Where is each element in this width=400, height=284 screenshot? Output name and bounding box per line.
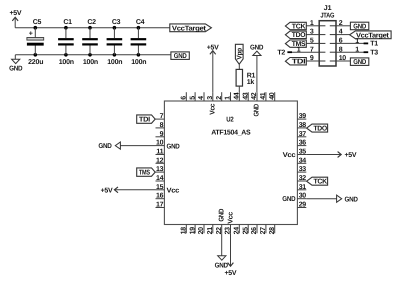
svg-text:32: 32 bbox=[299, 175, 307, 182]
wire J1 pin1 bbox=[306, 25, 319, 27]
svg-text:42: 42 bbox=[251, 92, 258, 100]
svg-text:1: 1 bbox=[355, 47, 359, 54]
capacitor C4 bbox=[131, 19, 147, 66]
capacitor C2 bbox=[82, 19, 98, 66]
power +5V (U2 pin35) bbox=[338, 152, 357, 160]
svg-text:VccTarget: VccTarget bbox=[172, 25, 207, 32]
IC U2 pin35 name Vcc bbox=[283, 152, 296, 159]
IC U2 pin23 name Vcc bbox=[227, 212, 234, 224]
wire J1 pin9 bbox=[306, 60, 319, 62]
wire Vcc top rail bbox=[15, 27, 170, 29]
wire J1 pin2 bbox=[336, 25, 350, 27]
capacitor C1 bbox=[58, 19, 74, 66]
svg-text:GND: GND bbox=[215, 262, 228, 269]
svg-text:17: 17 bbox=[156, 202, 164, 209]
global label TDO (U2 pin38) bbox=[307, 124, 328, 132]
IC U2 right pins 39-29 bbox=[297, 113, 306, 208]
resistor R1 bbox=[236, 69, 255, 86]
svg-text:22: 22 bbox=[216, 227, 223, 235]
svg-text:33: 33 bbox=[299, 166, 307, 173]
svg-text:ATF1504_AS: ATF1504_AS bbox=[211, 130, 251, 137]
svg-text:29: 29 bbox=[299, 202, 307, 209]
svg-text:T2: T2 bbox=[277, 49, 285, 56]
wire J1 pin5 bbox=[306, 42, 319, 44]
connector J1 label bbox=[324, 5, 332, 12]
svg-text:+5V: +5V bbox=[101, 187, 113, 194]
svg-text:GND: GND bbox=[167, 144, 180, 151]
svg-text:15: 15 bbox=[156, 184, 164, 191]
svg-text:100n: 100n bbox=[131, 59, 146, 66]
wire J1 pin4 bbox=[336, 34, 350, 36]
svg-text:38: 38 bbox=[299, 122, 307, 129]
wire J1 pin6 bbox=[336, 42, 368, 44]
svg-text:8: 8 bbox=[160, 122, 164, 129]
svg-text:C2: C2 bbox=[87, 19, 96, 26]
power +5V (U2 pin23) bbox=[225, 263, 237, 277]
svg-text:TDO: TDO bbox=[292, 32, 306, 39]
svg-text:11: 11 bbox=[156, 149, 163, 156]
svg-text:7: 7 bbox=[160, 113, 164, 120]
IC U2 left pins 7-17 bbox=[156, 113, 165, 208]
ground GND (bottom left) bbox=[9, 55, 22, 73]
testpoint T1 bbox=[355, 38, 378, 48]
svg-text:28: 28 bbox=[269, 227, 276, 235]
wire J1 pin7 bbox=[292, 51, 319, 53]
global label GND (bottom rail) bbox=[171, 52, 189, 60]
svg-text:C4: C4 bbox=[136, 19, 145, 26]
svg-text:40: 40 bbox=[269, 92, 276, 100]
svg-text:24: 24 bbox=[234, 227, 241, 235]
svg-text:C3: C3 bbox=[112, 19, 121, 26]
svg-text:5: 5 bbox=[189, 96, 196, 100]
IC U2 pin15 name Vcc bbox=[167, 187, 180, 194]
wire R1 to U2 pin44 bbox=[238, 86, 240, 92]
svg-text:100n: 100n bbox=[107, 59, 122, 66]
svg-text:TDI: TDI bbox=[139, 116, 150, 123]
svg-text:T3: T3 bbox=[370, 49, 378, 56]
svg-text:C1: C1 bbox=[63, 19, 72, 26]
svg-text:16: 16 bbox=[156, 193, 164, 200]
svg-text:GND: GND bbox=[345, 196, 358, 203]
svg-text:JTAG: JTAG bbox=[320, 13, 335, 20]
svg-text:J1: J1 bbox=[324, 5, 332, 12]
IC U2 bottom pins 18-28 bbox=[181, 225, 276, 235]
svg-text:+5V: +5V bbox=[345, 152, 357, 159]
svg-text:GND: GND bbox=[353, 23, 366, 30]
testpoint T2 bbox=[277, 47, 300, 57]
svg-text:U2: U2 bbox=[226, 117, 234, 124]
svg-text:Vcc: Vcc bbox=[167, 187, 180, 194]
svg-text:GND: GND bbox=[174, 53, 187, 60]
svg-text:12: 12 bbox=[156, 157, 164, 164]
testpoint T3 bbox=[355, 47, 378, 57]
svg-text:9: 9 bbox=[160, 131, 164, 138]
global label TDI (U2 pin7) bbox=[137, 115, 156, 124]
global label Vpp bbox=[235, 44, 243, 64]
svg-text:TDO: TDO bbox=[313, 125, 327, 132]
connector J1 pin numbers bbox=[310, 20, 346, 62]
svg-text:43: 43 bbox=[242, 92, 249, 100]
wire Vpp to R1 bbox=[238, 64, 240, 69]
IC U2 pin42 name GND bbox=[254, 104, 261, 117]
global label TMS (J1) bbox=[285, 40, 306, 48]
global label TCK (U2 pin32) bbox=[307, 177, 328, 185]
svg-text:1: 1 bbox=[297, 47, 301, 54]
global label TDO (J1) bbox=[285, 31, 306, 39]
wire U2 pin35 +5V bbox=[306, 154, 341, 156]
svg-text:34: 34 bbox=[299, 157, 307, 164]
wire J1 pin3 bbox=[306, 34, 319, 36]
global label VccTarget (top rail) bbox=[170, 24, 212, 33]
svg-text:20: 20 bbox=[198, 227, 205, 235]
global label VccTarget (J1 pin4) bbox=[350, 31, 392, 40]
global label TDI (J1) bbox=[285, 58, 306, 66]
svg-text:35: 35 bbox=[299, 149, 307, 156]
svg-text:TCK: TCK bbox=[313, 179, 327, 186]
svg-text:36: 36 bbox=[299, 140, 307, 147]
svg-text:VccTarget: VccTarget bbox=[356, 33, 390, 40]
svg-text:TMS: TMS bbox=[139, 169, 150, 176]
svg-text:100n: 100n bbox=[83, 59, 98, 66]
IC U2 value ATF1504_AS bbox=[211, 130, 251, 137]
svg-text:1: 1 bbox=[355, 38, 359, 45]
IC U2 body bbox=[164, 101, 297, 225]
svg-text:18: 18 bbox=[181, 227, 188, 235]
svg-text:GND: GND bbox=[254, 104, 261, 117]
capacitor C3 bbox=[107, 19, 123, 66]
svg-text:21: 21 bbox=[207, 227, 214, 235]
wire U2 pin22 GND bbox=[221, 233, 223, 256]
svg-text:Vpp: Vpp bbox=[236, 48, 243, 60]
svg-text:27: 27 bbox=[260, 227, 267, 235]
svg-text:GND: GND bbox=[98, 143, 111, 150]
connector J1 body bbox=[319, 21, 336, 66]
power +5V (top left) bbox=[10, 10, 22, 28]
svg-text:Vcc: Vcc bbox=[209, 103, 216, 114]
svg-text:37: 37 bbox=[299, 131, 307, 138]
svg-text:220u: 220u bbox=[28, 59, 43, 66]
svg-text:C5: C5 bbox=[33, 19, 42, 26]
wire GND bottom rail bbox=[15, 54, 171, 56]
svg-text:100n: 100n bbox=[59, 59, 74, 66]
svg-text:14: 14 bbox=[156, 175, 164, 182]
svg-text:1k: 1k bbox=[247, 78, 255, 86]
power label GND (J1 pin10) bbox=[350, 58, 368, 66]
svg-text:25: 25 bbox=[242, 227, 249, 235]
svg-text:31: 31 bbox=[299, 184, 307, 191]
svg-text:41: 41 bbox=[260, 92, 267, 100]
power GND (U2 pin22) bbox=[215, 256, 228, 270]
svg-text:44: 44 bbox=[234, 92, 241, 100]
global label TCK (J1) bbox=[285, 22, 306, 30]
svg-text:+5V: +5V bbox=[225, 270, 237, 277]
IC U2 top pins 6-40 bbox=[181, 92, 276, 101]
IC U2 pin3 name Vcc bbox=[209, 103, 216, 114]
svg-text:GND: GND bbox=[219, 209, 226, 222]
svg-text:+5V: +5V bbox=[10, 10, 22, 17]
svg-text:6: 6 bbox=[181, 96, 188, 100]
IC U2 refdes bbox=[226, 117, 234, 124]
svg-text:GND: GND bbox=[9, 65, 22, 72]
svg-text:Vcc: Vcc bbox=[283, 152, 296, 159]
svg-text:T1: T1 bbox=[370, 41, 378, 48]
IC U2 pin30 name GND bbox=[282, 196, 295, 203]
svg-text:39: 39 bbox=[299, 113, 307, 120]
wire U2 pin23 +5V bbox=[230, 233, 232, 266]
svg-text:GND: GND bbox=[250, 45, 263, 52]
svg-text:26: 26 bbox=[251, 227, 258, 235]
svg-text:1: 1 bbox=[225, 96, 232, 100]
svg-text:19: 19 bbox=[189, 227, 196, 235]
wire U2 pin30 GND bbox=[306, 198, 336, 200]
svg-text:4: 4 bbox=[198, 96, 205, 100]
svg-text:3: 3 bbox=[207, 96, 214, 100]
svg-text:23: 23 bbox=[225, 227, 232, 235]
svg-text:Vcc: Vcc bbox=[227, 212, 234, 224]
global label TMS (U2 pin13) bbox=[137, 168, 156, 177]
connector J1 value JTAG bbox=[320, 13, 335, 20]
IC U2 pin22 name GND bbox=[219, 209, 226, 222]
svg-text:10: 10 bbox=[156, 140, 164, 147]
wire U2 pin15 +5V bbox=[114, 189, 155, 191]
power +5V (U2 pin15) bbox=[101, 187, 118, 195]
connector J1 inner pin stubs bbox=[319, 26, 336, 61]
power GND (U2 pin10) bbox=[98, 142, 120, 150]
wire U2 pin10 GND bbox=[120, 145, 155, 147]
power label GND (J1 pin2) bbox=[350, 22, 368, 30]
svg-text:2: 2 bbox=[216, 96, 223, 100]
svg-text:GND: GND bbox=[353, 59, 366, 66]
svg-text:+: + bbox=[29, 31, 33, 38]
wire J1 pin8 bbox=[336, 51, 368, 53]
power GND (U2 pin42) bbox=[250, 45, 263, 93]
svg-text:TCK: TCK bbox=[292, 23, 306, 30]
wire J1 pin10 bbox=[336, 60, 350, 62]
svg-text:30: 30 bbox=[299, 193, 307, 200]
power GND (U2 pin30) bbox=[337, 195, 358, 203]
capacitor C5 bbox=[27, 19, 44, 66]
power +5V (U2 pin3) bbox=[207, 44, 219, 92]
svg-text:GND: GND bbox=[282, 196, 295, 203]
svg-text:13: 13 bbox=[156, 166, 164, 173]
IC U2 pin10 name GND bbox=[167, 144, 180, 151]
svg-text:TDI: TDI bbox=[292, 59, 306, 66]
